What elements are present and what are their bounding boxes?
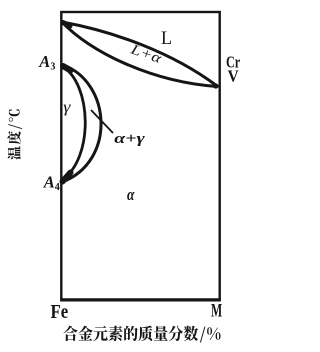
x-axis caption: mass fraction of alloying elements / percent [63,326,220,343]
svg-text:V: V [228,66,239,85]
junction wedge at left end of lens [63,23,70,27]
char shu [184,326,198,341]
svg-text:α+γ: α+γ [114,131,145,147]
char du [8,131,21,144]
char slash1 [8,124,22,129]
char liang [154,326,168,341]
char zhi [139,326,153,342]
gamma loop outer boundary [62,65,101,183]
leader line from alpha+gamma label to two-phase band [91,110,113,133]
svg-text:γ: γ [63,99,71,116]
plot frame border [61,12,219,300]
gamma loop inner boundary [62,66,85,180]
svg-text:Fe: Fe [51,302,69,323]
bottom axis emphasis stroke [60,298,221,301]
char degC [9,109,20,121]
char he [63,326,77,341]
char yuan [93,326,107,341]
solidus curve (lower boundary of L+alpha lens) [62,22,217,87]
char su [109,326,123,342]
svg-text:α: α [127,185,135,204]
char fen [169,326,183,342]
svg-text:M: M [211,300,222,321]
y-axis title: temperature / degrees C (rotated) [8,109,23,159]
char pct [207,327,220,340]
char de [124,326,138,341]
junction wedge at bottom of gamma loop [63,173,71,182]
blunt tip of lens [213,83,218,88]
svg-text:L: L [161,29,172,49]
liquidus curve (upper boundary of L+alpha lens) [62,22,217,86]
char slash2 [200,327,206,343]
junction wedge at top of gamma loop [63,66,71,71]
char wen [8,146,21,160]
char jin [78,326,93,341]
